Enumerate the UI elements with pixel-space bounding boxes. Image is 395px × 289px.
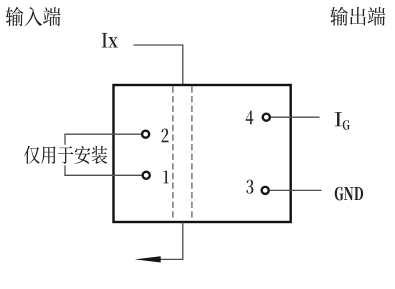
label 输入端 (input side) [6, 7, 61, 26]
module U1 outline (current sensor body) [114, 85, 291, 222]
pin 2 terminal circle [142, 131, 149, 138]
wire from Ix label to module top (primary input lead) [134, 45, 183, 85]
isolation barrier dashed line (left) [172, 86, 174, 220]
pin number 4 [246, 111, 254, 125]
wire from module bottom (primary return lead) [158, 222, 183, 259]
label Ix (primary current) [102, 33, 118, 48]
isolation barrier dashed line (right) [191, 86, 193, 220]
wire pin 3 to GND [270, 189, 322, 191]
label 仅用于安装 (for mounting only) [24, 146, 107, 164]
pin 1 terminal circle [143, 172, 150, 179]
pin 4 terminal circle [263, 114, 270, 121]
pin number 2 [162, 129, 169, 143]
bracket joining pins 1 and 2 (upper segment) [64, 134, 66, 145]
label GND [335, 187, 363, 201]
wire pin 4 to IG output [271, 116, 320, 118]
wire to pin 1 (mounting) [64, 174, 141, 176]
label I of IG (output current) [335, 112, 342, 126]
pin number 3 [246, 180, 253, 194]
arrowhead (current direction) [135, 256, 161, 262]
bracket joining pins 1 and 2 (lower segment) [64, 165, 66, 176]
label G subscript of IG [343, 120, 350, 130]
pin 3 terminal circle [262, 187, 269, 194]
label 输出端 (output side) [330, 7, 385, 26]
pin number 1 [164, 171, 169, 184]
wire to pin 2 (mounting) [64, 133, 141, 135]
